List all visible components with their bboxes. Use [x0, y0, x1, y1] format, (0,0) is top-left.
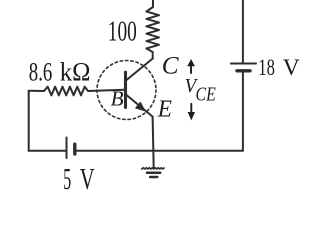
svg-text:C: C — [162, 50, 180, 79]
wire top-right vertical — [242, 0, 244, 63]
arrow down VCE — [190, 104, 192, 112]
transistor Q1 emitter lead — [127, 95, 153, 117]
svg-text:CE: CE — [196, 83, 216, 105]
transistor Q1 dashed circle — [97, 61, 156, 120]
svg-text:V: V — [283, 55, 300, 80]
svg-text:kΩ: kΩ — [60, 57, 91, 86]
resistor R1 100 (vertical) — [146, 0, 159, 59]
ground top bar — [142, 168, 164, 169]
transistor Q1 collector lead — [127, 59, 153, 80]
transistor Q1 emitter arrowhead — [136, 103, 144, 111]
svg-text:V: V — [80, 162, 95, 190]
wire right vertical below battery — [242, 73, 244, 151]
battery B2 5V long plate — [66, 138, 68, 159]
battery B1 18V short plate — [237, 69, 250, 72]
ground middle bar — [147, 172, 160, 175]
wire left vertical — [28, 91, 30, 151]
wire emitter vertical to ground — [153, 117, 154, 168]
wire bottom right segment — [75, 150, 243, 152]
battery B2 5V short plate — [73, 144, 76, 154]
svg-text:E: E — [157, 96, 172, 122]
arrow up VCE — [190, 66, 192, 74]
wire bottom left segment — [29, 150, 67, 152]
resistor R2 8.6 kOhm (horizontal) — [29, 87, 125, 96]
battery B1 18V long plate — [231, 63, 256, 65]
svg-text:8.6: 8.6 — [29, 57, 53, 86]
transistor Q1 base bar — [124, 72, 127, 107]
svg-text:5: 5 — [63, 162, 71, 190]
svg-text:100: 100 — [108, 16, 137, 47]
svg-text:18: 18 — [258, 55, 275, 80]
svg-text:B: B — [111, 87, 124, 111]
ground bottom bar — [150, 176, 157, 179]
